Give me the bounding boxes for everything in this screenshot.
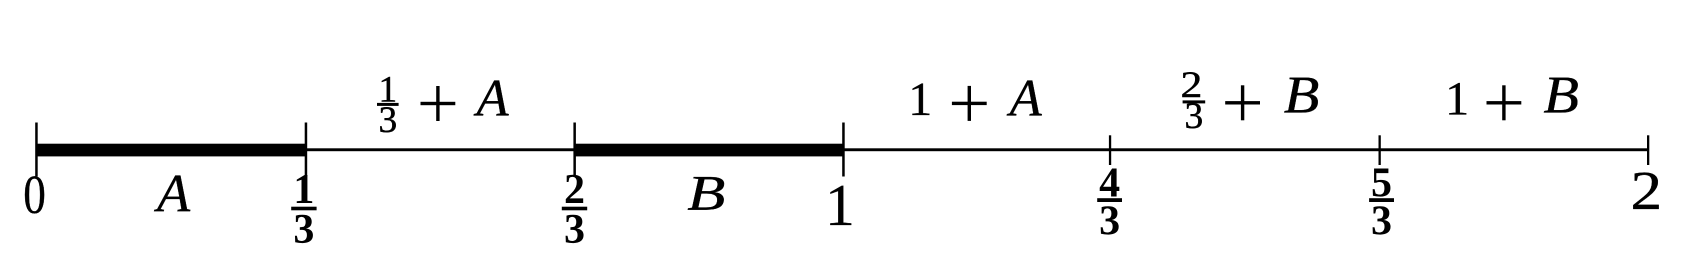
svg-text:3: 3 bbox=[1185, 96, 1204, 137]
svg-text:0: 0 bbox=[23, 164, 46, 225]
label B below segment B bbox=[687, 166, 725, 221]
label 2 below tick 2 bbox=[1630, 160, 1662, 221]
label 1 + A above: plus sign bbox=[952, 102, 987, 105]
label 2/3 + B above: B bbox=[1284, 67, 1320, 125]
tick 1/3 bbox=[305, 123, 308, 177]
tick 2 bbox=[1647, 135, 1649, 165]
svg-text:A: A bbox=[1007, 70, 1043, 128]
label 1 + B above: plus sign bbox=[1487, 101, 1522, 104]
label 0 below tick 0 bbox=[23, 164, 46, 225]
label fraction 2/3 below tick: bar bbox=[562, 207, 587, 211]
tick 0 bbox=[35, 123, 38, 177]
svg-text:3: 3 bbox=[1371, 199, 1392, 245]
label 1 + B above: B bbox=[1543, 67, 1579, 125]
tick 4/3 bbox=[1109, 135, 1111, 165]
tick 1 bbox=[842, 123, 845, 177]
svg-text:1: 1 bbox=[825, 172, 855, 238]
label 2/3 + B above: fraction bar bbox=[1183, 100, 1206, 103]
tick 2/3 bbox=[573, 123, 576, 177]
label 2/3 + B above: fraction numerator 2 bbox=[1181, 64, 1203, 105]
svg-text:2: 2 bbox=[1630, 160, 1662, 221]
number line axis bbox=[36, 148, 1648, 151]
svg-text:3: 3 bbox=[378, 100, 397, 141]
svg-text:3: 3 bbox=[293, 207, 314, 253]
svg-text:1: 1 bbox=[908, 73, 932, 126]
label 1/3 + A above: fraction bar bbox=[377, 103, 399, 106]
svg-text:3: 3 bbox=[1099, 199, 1120, 245]
svg-text:A: A bbox=[154, 163, 191, 223]
label fraction 1/3 below tick: bar bbox=[291, 207, 316, 211]
segment B thick bar 2/3 to 1 bbox=[575, 144, 844, 157]
label fraction 4/3 below tick: bar bbox=[1097, 198, 1122, 202]
svg-text:3: 3 bbox=[564, 207, 585, 253]
svg-text:B: B bbox=[1543, 67, 1579, 125]
svg-text:1: 1 bbox=[1445, 72, 1469, 125]
label 2/3 + B above: plus sign bbox=[1225, 101, 1260, 104]
svg-text:B: B bbox=[1284, 67, 1320, 125]
svg-text:A: A bbox=[474, 70, 510, 128]
svg-text:B: B bbox=[687, 166, 725, 221]
segment A thick bar 0 to 1/3 bbox=[36, 144, 306, 157]
label 1/3 + A above: plus sign bbox=[421, 102, 456, 105]
label fraction 5/3 below tick: bar bbox=[1369, 198, 1394, 202]
tick 5/3 bbox=[1379, 135, 1381, 165]
